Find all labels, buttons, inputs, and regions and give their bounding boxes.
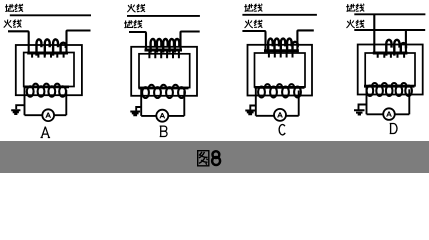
label A bbox=[41, 127, 51, 138]
secondary right wire (B) bbox=[183, 91, 185, 116]
label 火线 (D) bbox=[347, 20, 365, 28]
wire from live bus to primary (D) bbox=[405, 30, 407, 55]
secondary bottom wire (B) bbox=[141, 115, 184, 117]
secondary coil (A) bbox=[24, 84, 69, 97]
secondary left wire (A) bbox=[24, 87, 26, 116]
label 火线 (B) bbox=[127, 4, 145, 12]
ground bus wire (A) bbox=[10, 14, 91, 16]
secondary coil (D) bbox=[364, 83, 415, 96]
primary right lead wire (A) bbox=[67, 31, 91, 55]
ground bus wire (C) bbox=[242, 14, 317, 16]
ammeter (A) bbox=[42, 109, 54, 121]
primary coil (C) bbox=[264, 39, 299, 58]
secondary right wire (C) bbox=[298, 91, 300, 116]
label B bbox=[160, 126, 167, 136]
live bus wire with wire to primary (C) bbox=[242, 31, 265, 52]
label 火线 (C) bbox=[245, 20, 263, 28]
ground stub wire (B) bbox=[136, 107, 141, 111]
primary coil (B) bbox=[145, 39, 183, 58]
ground bus wire (D) bbox=[354, 13, 425, 15]
transformer core inner (C) bbox=[255, 53, 306, 87]
ammeter (D) bbox=[383, 108, 395, 120]
label 火线 (A) bbox=[4, 20, 22, 28]
ground symbol (C) bbox=[245, 111, 255, 115]
secondary bottom wire (A) bbox=[25, 114, 67, 116]
transformer core inner (A) bbox=[24, 53, 74, 87]
primary right lead wire (C) bbox=[297, 30, 313, 52]
ammeter (B) bbox=[156, 110, 168, 122]
label 地线 (C) bbox=[244, 4, 262, 12]
secondary right wire (D) bbox=[408, 89, 410, 114]
secondary coil (B) bbox=[139, 85, 189, 98]
secondary bottom wire (C) bbox=[256, 115, 299, 117]
label D bbox=[390, 124, 397, 134]
secondary left wire (B) bbox=[140, 88, 142, 116]
live bus wire (B) bbox=[127, 15, 200, 17]
transformer core inner (D) bbox=[365, 53, 415, 86]
ground bus wire with wire to primary (B) bbox=[129, 32, 146, 52]
primary right lead wire (B) bbox=[181, 32, 200, 52]
ground symbol (A) bbox=[11, 110, 20, 114]
transformer core outer (C) bbox=[248, 45, 313, 96]
primary coil (A) bbox=[27, 39, 68, 57]
ground stub wire (A) bbox=[16, 105, 24, 109]
transformer core inner (B) bbox=[139, 54, 190, 88]
transformer core outer (D) bbox=[358, 45, 423, 95]
transformer core outer (B) bbox=[131, 47, 197, 96]
live bus wire (D) bbox=[354, 29, 425, 31]
ground symbol (D) bbox=[354, 110, 365, 114]
ground stub wire (C) bbox=[250, 106, 256, 110]
secondary coil (C) bbox=[255, 84, 305, 97]
transformer core outer (A) bbox=[16, 45, 82, 95]
caption bar bbox=[0, 141, 429, 173]
secondary bottom wire (D) bbox=[367, 113, 410, 115]
secondary left wire (D) bbox=[366, 86, 368, 115]
ammeter (C) bbox=[274, 109, 286, 121]
secondary right wire (A) bbox=[65, 90, 67, 115]
label 地线 (A) bbox=[5, 4, 23, 12]
caption 图 8 bbox=[198, 151, 220, 166]
label C bbox=[279, 124, 285, 134]
ground stub wire (D) bbox=[359, 105, 367, 110]
wire from ground bus to primary (D) bbox=[373, 14, 375, 54]
secondary left wire (C) bbox=[255, 87, 257, 116]
ground symbol (B) bbox=[130, 112, 140, 116]
label 地线 (D) bbox=[346, 4, 364, 12]
live bus wire with wire to primary (A) bbox=[8, 31, 29, 54]
primary coil (D) bbox=[373, 40, 408, 58]
label 地线 (B) bbox=[124, 20, 142, 28]
